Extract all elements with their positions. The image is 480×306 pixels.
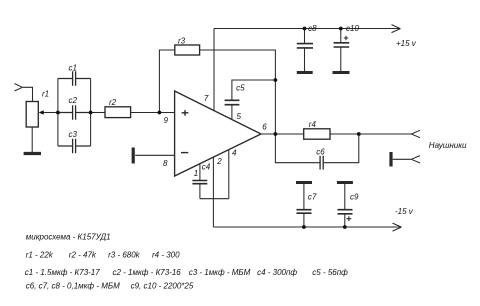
output connector bbox=[411, 130, 420, 137]
node c10 bbox=[339, 27, 343, 31]
svg-text:+15 v: +15 v bbox=[396, 39, 417, 48]
svg-text:-15 v: -15 v bbox=[395, 207, 414, 216]
svg-text:c4 - 300пф: c4 - 300пф bbox=[257, 268, 297, 277]
wire headphone ground bbox=[393, 158, 412, 160]
svg-text:8: 8 bbox=[163, 159, 168, 168]
svg-text:r3: r3 bbox=[178, 36, 186, 45]
svg-text:c10: c10 bbox=[346, 24, 359, 33]
wire r2 to node 9 bbox=[131, 112, 175, 114]
wire output bbox=[261, 133, 304, 135]
wire pin 8 bbox=[135, 154, 174, 156]
wire c4 bottom bbox=[199, 184, 201, 199]
svg-text:r4 - 300: r4 - 300 bbox=[152, 250, 180, 259]
resistor R2 bbox=[105, 107, 131, 118]
wire left cap bus bbox=[57, 79, 59, 147]
wire pin 7 to +15 rail bbox=[213, 29, 215, 111]
svg-text:c6: c6 bbox=[316, 148, 325, 157]
svg-text:c9, c10 - 2200*25: c9, c10 - 2200*25 bbox=[131, 282, 194, 291]
svg-text:c4: c4 bbox=[202, 162, 211, 171]
node c9 bbox=[343, 225, 347, 229]
node arrow +15 bbox=[392, 25, 401, 33]
resistor R4 bbox=[304, 129, 330, 139]
node arrow -15 bbox=[393, 223, 402, 231]
wire right cap bus bbox=[90, 79, 92, 147]
svg-text:c2: c2 bbox=[69, 96, 78, 105]
capacitor C8 bbox=[304, 29, 306, 44]
svg-text:c1 - 1.5мкф - К73-17: c1 - 1.5мкф - К73-17 bbox=[25, 268, 100, 277]
capacitor C4 bbox=[192, 181, 207, 184]
capacitor C3 bbox=[58, 139, 91, 153]
wire pin 2 to -15 rail bbox=[212, 157, 214, 227]
svg-text:r4: r4 bbox=[309, 120, 317, 129]
node c7 bbox=[302, 225, 306, 229]
wire r3 to feedback drop bbox=[200, 50, 276, 134]
svg-text:1: 1 bbox=[194, 169, 198, 178]
wire wiper line bbox=[43, 112, 58, 114]
wire r4 to headphones bbox=[330, 133, 411, 135]
capacitor C2 bbox=[58, 105, 91, 119]
svg-text:c5 - 56пф: c5 - 56пф bbox=[312, 268, 348, 277]
node A bbox=[56, 111, 60, 115]
wire input to r1 bbox=[22, 87, 32, 101]
node r4/c6 bbox=[357, 132, 361, 136]
wire -15v rail bbox=[213, 226, 401, 228]
resistor R3 bbox=[175, 45, 200, 55]
svg-text:Наушники: Наушники bbox=[429, 141, 467, 150]
node c8 bbox=[303, 27, 307, 31]
svg-text:r2: r2 bbox=[109, 98, 117, 107]
svg-text:c6, c7, c8 - 0,1мкф - МБМ: c6, c7, c8 - 0,1мкф - МБМ bbox=[26, 282, 120, 291]
input connector bbox=[15, 84, 23, 92]
wire feedback riser bbox=[159, 50, 174, 113]
svg-text:c5: c5 bbox=[236, 83, 245, 92]
wire pin 4 bbox=[228, 150, 230, 199]
node 6 output bbox=[274, 132, 278, 136]
svg-text:c1: c1 bbox=[69, 63, 77, 72]
capacitor C1 bbox=[58, 71, 91, 85]
op-amp U1 bbox=[175, 91, 261, 176]
svg-text:5: 5 bbox=[237, 112, 242, 121]
wiper arrow r1 bbox=[39, 110, 44, 115]
svg-text:микросхема - К157УД1: микросхема - К157УД1 bbox=[26, 233, 111, 242]
svg-text:7: 7 bbox=[204, 94, 209, 103]
svg-text:4: 4 bbox=[232, 148, 237, 157]
ground bbox=[24, 152, 41, 155]
wire c5 branch bbox=[232, 80, 276, 100]
wire c6 branch bbox=[275, 134, 358, 163]
capacitor C7 bbox=[296, 181, 312, 184]
node 9 bbox=[158, 111, 162, 115]
node B bbox=[89, 111, 93, 115]
wire pins 1-4 tie bbox=[200, 198, 229, 200]
ground (headphone return) bbox=[389, 152, 392, 167]
capacitor C5 bbox=[225, 100, 240, 104]
node c5/feedback bbox=[274, 78, 278, 82]
svg-text:9: 9 bbox=[164, 116, 169, 125]
capacitor C6 bbox=[320, 156, 323, 170]
svg-text:c9: c9 bbox=[350, 193, 359, 202]
wire r1 bottom lead bbox=[31, 127, 33, 152]
svg-text:r1: r1 bbox=[42, 90, 49, 99]
svg-text:c8: c8 bbox=[308, 24, 317, 33]
svg-text:c2 - 1мкф - К73-16: c2 - 1мкф - К73-16 bbox=[113, 268, 182, 277]
svg-text:6: 6 bbox=[262, 122, 267, 131]
svg-text:r2 - 47k: r2 - 47k bbox=[69, 250, 97, 259]
wire +15v rail bbox=[214, 28, 400, 30]
output connector ground bbox=[411, 156, 420, 163]
resistor R1 bbox=[26, 102, 38, 128]
ground (inverting input) bbox=[132, 148, 135, 164]
capacitor C9 bbox=[337, 181, 353, 184]
svg-text:2: 2 bbox=[216, 157, 222, 166]
svg-text:c3: c3 bbox=[69, 130, 78, 139]
svg-text:c7: c7 bbox=[308, 193, 317, 202]
wire to r2 bbox=[91, 112, 105, 114]
svg-text:r1 - 22k: r1 - 22k bbox=[26, 250, 54, 259]
wire c5 to pin5 bbox=[231, 105, 233, 120]
svg-text:r3 - 680k: r3 - 680k bbox=[108, 250, 141, 259]
wire pin 1 bbox=[199, 164, 201, 181]
capacitor C10 bbox=[340, 29, 342, 43]
svg-text:c3 - 1мкф - МБМ: c3 - 1мкф - МБМ bbox=[189, 268, 251, 277]
